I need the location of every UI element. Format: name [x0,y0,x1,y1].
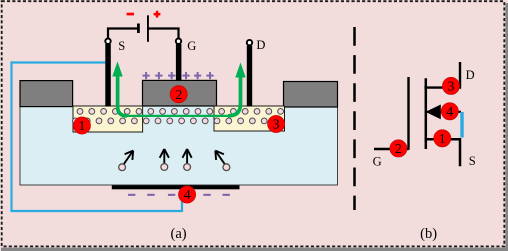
node 4 marker on body contact [179,186,196,203]
green arrowhead right [235,63,245,78]
source lead [105,44,111,107]
gate electrode [143,80,217,106]
hole 3 with arrow [183,149,192,163]
N+ source region [73,106,143,132]
shadow band right [505,3,508,251]
svg-text:1: 1 [78,119,85,134]
svg-text:3: 3 [273,118,280,133]
hole 2 with arrow [160,149,169,163]
gate lead [176,44,182,81]
drain lead [247,46,252,107]
symbol source branch wire [425,139,460,166]
node 3 marker on drain region [268,115,285,132]
source metal contact [20,81,73,107]
electrons top row [77,109,283,115]
drain metal contact [284,82,338,108]
battery minus label [127,13,134,16]
svg-text:2: 2 [175,88,182,103]
terminal node D [247,40,252,45]
green arrowhead left [112,62,122,77]
svg-text:(a): (a) [171,226,187,242]
substrate (p-type body) [20,106,338,185]
svg-text:S: S [118,39,125,53]
symbol gate lead wire [374,148,409,150]
wire: blue body-source link [460,112,463,138]
induced negative charges [128,194,230,196]
svg-text:4: 4 [184,188,191,203]
node 2 marker (symbol gate) [390,140,407,157]
wire: battery to G terminal [148,29,179,39]
svg-text:4: 4 [446,105,453,120]
wire: green channel current line [124,115,230,117]
electrons bottom row [73,118,279,124]
wire: blue body-to-source connection [12,63,183,212]
battery plus label [154,11,161,18]
svg-text:D: D [466,68,475,82]
body contact electrode [112,185,240,189]
symbol channel line [425,78,428,149]
gate positive charges [143,72,214,79]
wire: S terminal to battery [108,29,138,39]
node 1 marker (symbol source) [434,130,451,147]
symbol body diode arrow [426,105,441,120]
symbol drain branch wire [424,62,460,88]
battery positive plate [147,15,149,42]
wire: green source-side rise [118,74,127,116]
node 1 marker on source region [73,117,90,134]
svg-text:2: 2 [395,142,402,157]
svg-text:(b): (b) [420,226,437,242]
hole 1 with arrow [124,151,133,164]
terminal node S [105,39,110,44]
node 3 marker (symbol drain) [442,77,459,94]
hole 4 with arrow [215,151,224,164]
dashed separator line [353,27,356,210]
svg-text:1: 1 [439,132,446,147]
battery negative plate [137,24,140,34]
terminal node G [176,39,181,44]
symbol gate line [407,77,409,150]
svg-text:3: 3 [448,80,455,95]
N+ drain region [214,106,285,131]
svg-text:D: D [256,38,265,52]
shadow band bottom [1,248,508,251]
symbol body branch wire [426,111,462,113]
node 4 marker (symbol body) [441,103,458,120]
svg-text:G: G [187,39,196,53]
node 2 marker on gate [170,86,187,103]
wire: green drain-side rise [228,75,241,116]
svg-text:G: G [373,155,382,169]
svg-text:S: S [469,154,476,168]
